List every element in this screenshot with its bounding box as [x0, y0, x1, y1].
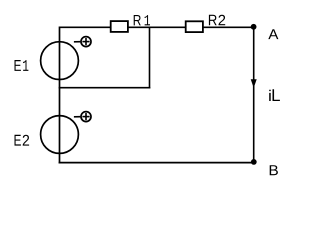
resistor R1 [111, 21, 128, 32]
label R2 [209, 15, 225, 25]
wire bottom (node B to E2 bottom) [59, 162, 255, 164]
wire middle horizontal (junction to E1/E2 midpoint) [59, 87, 151, 89]
node A [251, 24, 257, 30]
wire left vertical (through E1 and E2) [59, 26, 61, 163]
label B [270, 165, 278, 175]
wire junction vertical (R1-R2 node down to middle wire) [149, 27, 151, 88]
current arrow iL [251, 79, 257, 88]
voltage source E2 [41, 112, 91, 154]
wire top (node top-left to node A through R1,R2) [60, 26, 254, 28]
label iL [269, 89, 280, 101]
node B [251, 159, 257, 165]
label A [268, 29, 278, 39]
resistor R2 [186, 21, 203, 32]
voltage source E1 [41, 37, 91, 80]
label E1 [15, 60, 29, 71]
label E2 [15, 135, 30, 146]
label R1 [134, 15, 150, 25]
wire right vertical (A to B, load branch) [253, 27, 255, 163]
